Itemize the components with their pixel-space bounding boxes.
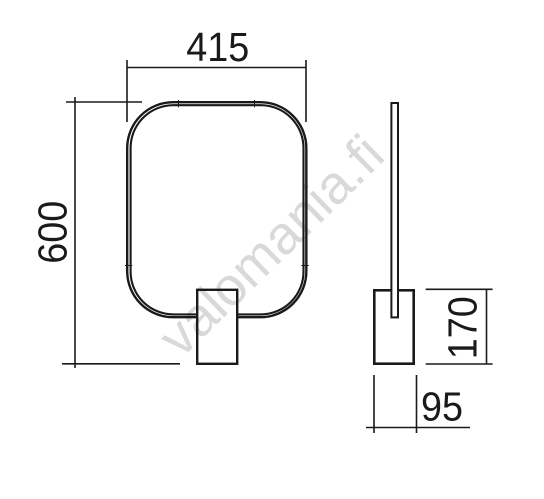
ring joint tick top-right (254, 100, 256, 107)
dimension 170: dimension line (486, 289, 488, 364)
ring outline inner (front view) (131, 105, 304, 314)
dimension 415: extension line right (305, 60, 307, 122)
dimension 415: dimension line (127, 67, 306, 69)
dimension 170: bottom tick (426, 363, 493, 365)
dimension 95: dimension line (366, 427, 470, 429)
ring outline outer (front view) (127, 102, 306, 317)
dimension 170: top tick (426, 288, 493, 290)
side profile thin bar (391, 103, 398, 317)
svg-text:600: 600 (29, 201, 75, 264)
dimension 600: bottom tick (62, 363, 180, 365)
svg-text:170: 170 (440, 296, 486, 359)
svg-text:415: 415 (186, 24, 249, 70)
dimension 600: dimension line (74, 97, 76, 368)
dimension 95: extension line right (416, 375, 418, 433)
ring joint tick right (301, 265, 308, 267)
ring joint tick left (125, 265, 132, 267)
dimension 415: extension line left (126, 60, 128, 122)
front bracket rectangle (197, 290, 237, 364)
dimension 600: top tick (66, 101, 142, 103)
svg-text:95: 95 (421, 383, 463, 429)
side bracket rectangle (374, 290, 413, 363)
ring joint tick top-left (178, 100, 180, 107)
dimension 95: extension line left (373, 375, 375, 433)
